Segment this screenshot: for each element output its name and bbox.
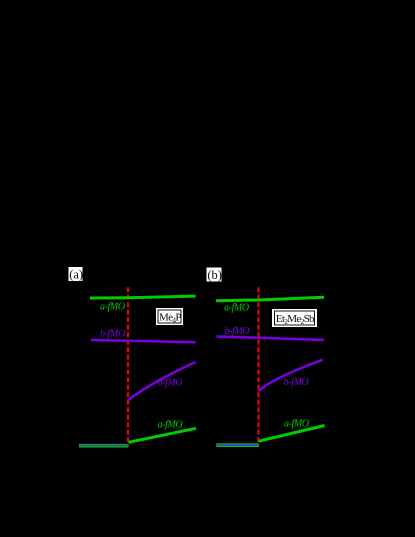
- svg-text:b-fMO: b-fMO: [158, 377, 183, 388]
- svg-text:b-fMO: b-fMO: [100, 329, 125, 340]
- svg-text:Et2Me2Sb: Et2Me2Sb: [276, 313, 315, 326]
- svg-text:a-fMO: a-fMO: [284, 419, 309, 430]
- svg-text:b-fMO: b-fMO: [284, 377, 309, 388]
- svg-text:(a): (a): [69, 268, 83, 282]
- svg-text:a-fMO: a-fMO: [224, 302, 249, 313]
- svg-text:b-fMO: b-fMO: [225, 326, 250, 337]
- svg-text:Me4P: Me4P: [159, 312, 181, 325]
- svg-text:(b): (b): [207, 268, 222, 282]
- svg-text:a-fMO: a-fMO: [100, 301, 125, 312]
- svg-text:a-fMO: a-fMO: [158, 420, 183, 431]
